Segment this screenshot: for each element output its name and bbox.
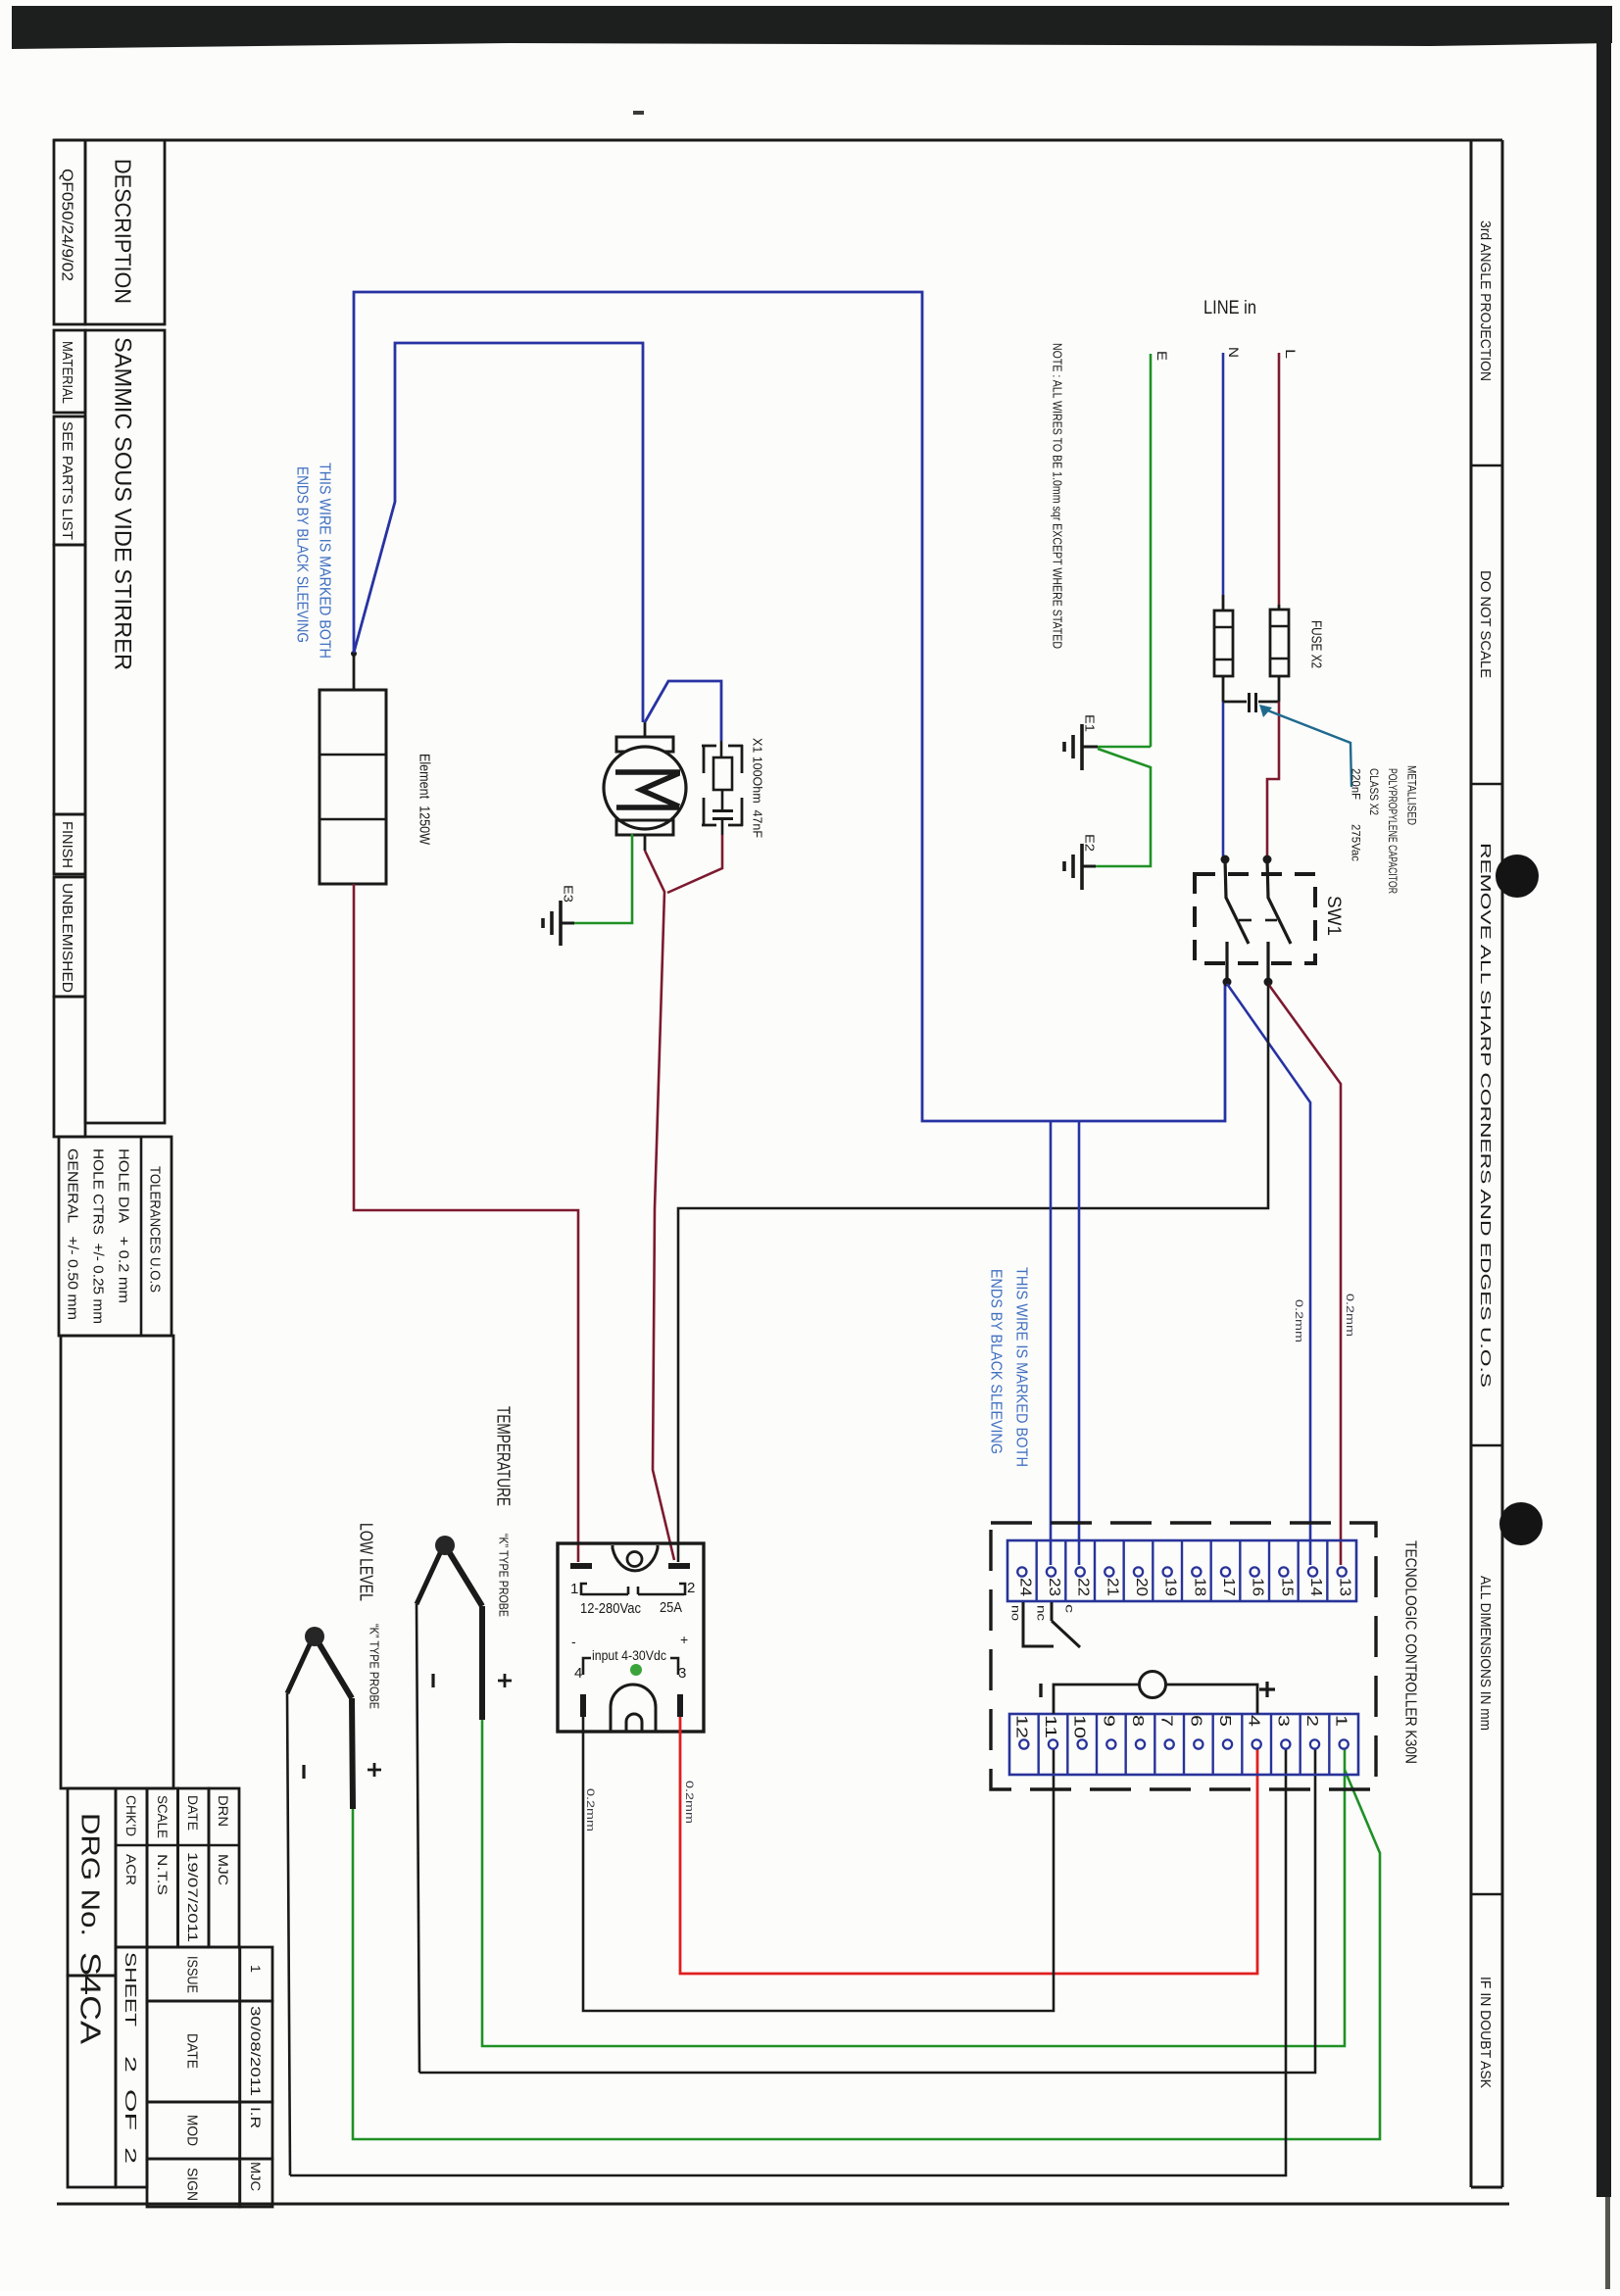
ground E2 — [1083, 865, 1096, 868]
terminal 21 — [1105, 1567, 1113, 1576]
svg-text:12-280Vac: 12-280Vac — [580, 1600, 641, 1617]
svg-text:0.2mm: 0.2mm — [1344, 1294, 1355, 1337]
ground E1 — [1083, 746, 1098, 749]
svg-text:11: 11 — [1042, 1715, 1058, 1738]
svg-text:no: no — [1009, 1605, 1023, 1621]
SSR pad 1 — [570, 1563, 592, 1569]
wire black SSR4 to terminal 11 — [583, 1717, 1054, 2011]
svg-text:THIS WIRE IS MARKED BOTH: THIS WIRE IS MARKED BOTH — [316, 463, 332, 659]
wire E line (green) — [1150, 354, 1153, 747]
SSR pad 2 — [668, 1563, 690, 1569]
SSR output contact symbol — [581, 1584, 587, 1595]
svg-text:2 OF 2: 2 OF 2 — [122, 2056, 138, 2164]
motor M1 — [616, 737, 673, 752]
node SW1 N bottom — [1223, 978, 1232, 987]
scanner black bar right — [1596, 6, 1611, 2197]
terminal 3 — [1281, 1739, 1290, 1748]
wire green motor to E3 ground — [574, 834, 632, 923]
wire red SSR3 to terminal 4 — [680, 1717, 1257, 1974]
resistor X1 100Ohm — [713, 757, 732, 790]
wire motor bottom stub — [644, 835, 647, 851]
wire green temp probe to terminal 1 — [482, 1720, 1345, 2046]
right margin cells — [1471, 464, 1502, 467]
fuse F1 (N) — [1222, 595, 1225, 611]
switch pole 1 — [1225, 859, 1249, 982]
svg-text:ALL DIMENSIONS IN mm: ALL DIMENSIONS IN mm — [1477, 1576, 1493, 1731]
svg-text:2: 2 — [1303, 1715, 1320, 1727]
svg-text:THIS WIRE IS MARKED BOTH: THIS WIRE IS MARKED BOTH — [1012, 1267, 1029, 1467]
svg-text:5: 5 — [1216, 1715, 1233, 1727]
svg-text:6: 6 — [1187, 1715, 1203, 1727]
low level probe — [305, 1627, 324, 1646]
relay contact symbol — [1023, 1602, 1080, 1647]
wire L line (maroon) — [1278, 353, 1281, 605]
svg-text:7: 7 — [1158, 1715, 1175, 1727]
svg-text:nc: nc — [1035, 1605, 1049, 1621]
terminal 4 — [1252, 1739, 1261, 1748]
wire blue taps to terminals 22 23 — [1050, 1121, 1053, 1565]
svg-text:25A: 25A — [660, 1599, 682, 1616]
terminal 1 — [1340, 1739, 1349, 1748]
svg-text:input 4-30Vdc: input 4-30Vdc — [592, 1648, 666, 1663]
leader to capacitor — [1265, 709, 1351, 787]
svg-text:UNBLEMISHED: UNBLEMISHED — [59, 883, 74, 993]
terminal 16 — [1251, 1567, 1259, 1576]
svg-text:DRG No.: DRG No. — [76, 1813, 106, 1936]
svg-text:0.2mm: 0.2mm — [683, 1781, 695, 1824]
wire X1 top stub — [720, 741, 723, 757]
wire black temp probe to terminal 2 — [419, 1748, 1315, 2073]
svg-text:Element 1250W: Element 1250W — [417, 754, 433, 846]
svg-text:E1: E1 — [1082, 714, 1097, 732]
svg-text:E: E — [1154, 351, 1169, 361]
terminal 24 — [1017, 1567, 1026, 1576]
wire maroon motor bottom to SSR pin2 — [645, 851, 674, 1560]
svg-text:13: 13 — [1337, 1578, 1353, 1596]
label controller plus — [1259, 1682, 1275, 1697]
wire black low level to terminal 3 — [290, 1748, 1286, 2175]
svg-text:FUSE X2: FUSE X2 — [1308, 620, 1325, 668]
svg-text:DRN: DRN — [216, 1795, 231, 1827]
svg-text:14: 14 — [1307, 1578, 1324, 1596]
label temp minus — [431, 1674, 434, 1687]
svg-text:MJC: MJC — [248, 2162, 264, 2191]
sheet border frame — [54, 139, 1502, 142]
svg-text:“K” TYPE PROBE: “K” TYPE PROBE — [368, 1624, 381, 1709]
wire blue loop element-SW1 (marked both ends) — [354, 292, 1225, 1121]
node element top junction — [351, 651, 357, 657]
wire maroon SW1 to terminal 13 — [1268, 984, 1341, 1565]
svg-text:DO NOT SCALE: DO NOT SCALE — [1477, 570, 1493, 678]
svg-text:20: 20 — [1133, 1578, 1150, 1596]
terminal 8 — [1136, 1739, 1145, 1748]
SSR pad 3 — [677, 1694, 683, 1717]
svg-text:c: c — [1063, 1604, 1077, 1613]
terminal 22 — [1076, 1567, 1085, 1576]
svg-text:X1 100Ohm 47nF: X1 100Ohm 47nF — [751, 738, 764, 838]
SSR pad 4 — [580, 1694, 586, 1717]
svg-text:FINISH: FINISH — [59, 821, 74, 868]
controller ssr-drive circle — [1054, 1685, 1139, 1714]
svg-text:DESCRIPTION: DESCRIPTION — [111, 159, 136, 304]
capacitor C1 220nF leads — [1223, 701, 1247, 704]
terminal 2 — [1310, 1739, 1319, 1748]
fuse F2 (L) — [1278, 605, 1281, 610]
svg-text:N.T.S: N.T.S — [155, 1854, 171, 1895]
svg-text:HOLE CTRS +/- 0.25 mm: HOLE CTRS +/- 0.25 mm — [90, 1148, 107, 1324]
svg-text:SCALE: SCALE — [155, 1795, 171, 1838]
svg-text:30/08/2011: 30/08/2011 — [248, 2006, 264, 2096]
svg-text:16: 16 — [1250, 1578, 1266, 1596]
svg-text:1: 1 — [1333, 1715, 1350, 1727]
svg-text:21: 21 — [1104, 1578, 1120, 1596]
svg-text:I.R: I.R — [248, 2107, 264, 2128]
svg-text:22: 22 — [1075, 1578, 1092, 1596]
terminal 10 — [1078, 1739, 1087, 1748]
controller K30N dashed outline — [991, 1523, 1376, 1789]
wire element bottom (maroon) to SSR pin1 — [354, 884, 578, 1562]
punch hole bottom — [1499, 1502, 1543, 1545]
svg-text:NOTE : ALL WIRES TO BE 1.0mm s: NOTE : ALL WIRES TO BE 1.0mm sqr EXCEPT … — [1050, 343, 1064, 649]
solid state relay U1 box — [558, 1543, 704, 1732]
svg-text:17: 17 — [1220, 1578, 1237, 1596]
svg-text:MJC: MJC — [216, 1854, 231, 1885]
svg-text:-: - — [571, 1634, 576, 1649]
svg-text:SW1: SW1 — [1323, 896, 1344, 936]
wire green E to grounds — [1098, 746, 1151, 749]
svg-text:4: 4 — [574, 1665, 582, 1682]
wire motor top stub — [644, 722, 647, 737]
wire blue SW1 to terminal 14 — [1227, 984, 1310, 1565]
node SW1 N top — [1221, 855, 1230, 864]
svg-text:SIGN: SIGN — [184, 2168, 201, 2201]
svg-text:LINE in: LINE in — [1203, 298, 1256, 318]
svg-text:9: 9 — [1100, 1715, 1116, 1727]
switch SW1 dashed box — [1195, 874, 1315, 963]
terminal 14 — [1308, 1567, 1317, 1576]
SSR bottom notch — [611, 1685, 656, 1731]
svg-text:CLASS X2: CLASS X2 — [1367, 768, 1381, 815]
svg-text:DATE: DATE — [185, 1795, 201, 1831]
tolerances box — [59, 1137, 172, 1336]
terminal 18 — [1192, 1567, 1201, 1576]
svg-text:1: 1 — [248, 1965, 264, 1973]
svg-text:3rd ANGLE PROJECTION: 3rd ANGLE PROJECTION — [1477, 220, 1493, 381]
terminal 13 — [1338, 1567, 1347, 1576]
label low plus — [368, 1763, 381, 1777]
svg-text:ACR: ACR — [123, 1854, 139, 1885]
svg-text:QF050/24/9/02: QF050/24/9/02 — [58, 169, 74, 281]
svg-text:DATE: DATE — [184, 2033, 201, 2069]
wire resistor to capacitor — [721, 790, 724, 809]
SSR input brackets — [583, 1658, 591, 1675]
scanner black bar top — [12, 6, 1612, 49]
svg-text:3: 3 — [1274, 1715, 1291, 1727]
svg-text:12: 12 — [1012, 1715, 1029, 1738]
wire green low level to terminal 1 — [353, 1770, 1380, 2139]
svg-text:E3: E3 — [561, 885, 575, 903]
svg-text:L: L — [1283, 349, 1298, 360]
svg-text:0.2mm: 0.2mm — [1293, 1299, 1304, 1343]
svg-text:CHK'D: CHK'D — [123, 1795, 139, 1836]
wire maroon X1 to motor net — [667, 835, 722, 893]
svg-text:24: 24 — [1016, 1578, 1033, 1596]
svg-text:+: + — [680, 1632, 688, 1647]
drawing info table — [68, 1788, 116, 1976]
svg-text:REMOVE ALL SHARP CORNERS AND E: REMOVE ALL SHARP CORNERS AND EDGES U.O.S — [1477, 843, 1493, 1388]
wire N line (blue) — [1222, 353, 1225, 595]
svg-text:19: 19 — [1162, 1578, 1179, 1596]
label low minus — [302, 1765, 305, 1779]
terminal row 1-12 — [1009, 1714, 1358, 1775]
left band lower empty box — [61, 1336, 173, 1788]
capacitor C1 220nF plates — [1248, 693, 1251, 712]
terminal 9 — [1106, 1739, 1115, 1748]
terminal 15 — [1279, 1567, 1288, 1576]
wire black SW1 to SSR pin2 — [678, 984, 1268, 1562]
svg-text:N: N — [1226, 347, 1241, 358]
terminal row 13-24 — [1007, 1540, 1356, 1601]
terminal 23 — [1047, 1567, 1055, 1576]
svg-text:HOLE DIA + 0.2 mm: HOLE DIA + 0.2 mm — [116, 1148, 132, 1303]
svg-text:“K” TYPE PROBE: “K” TYPE PROBE — [497, 1534, 511, 1617]
svg-text:23: 23 — [1046, 1578, 1062, 1596]
svg-text:0.2mm: 0.2mm — [584, 1788, 596, 1832]
svg-text:19/07/2011: 19/07/2011 — [185, 1852, 201, 1942]
svg-text:SAMMIC SOUS VIDE STIRRER: SAMMIC SOUS VIDE STIRRER — [109, 337, 135, 670]
terminal 17 — [1221, 1567, 1230, 1576]
label controller minus — [1039, 1684, 1042, 1697]
svg-text:MOD: MOD — [184, 2115, 201, 2146]
svg-text:E2: E2 — [1082, 834, 1097, 852]
wire L below fuse (maroon) — [1267, 702, 1279, 856]
terminal 6 — [1194, 1739, 1203, 1748]
punch hole top — [1496, 855, 1539, 898]
svg-text:TECNOLOGIC CONTROLLER K30N: TECNOLOGIC CONTROLLER K30N — [1401, 1540, 1418, 1764]
svg-text:GENERAL +/- 0.50 mm: GENERAL +/- 0.50 mm — [65, 1148, 81, 1320]
svg-text:1: 1 — [570, 1581, 578, 1597]
terminal 12 — [1019, 1739, 1028, 1748]
svg-text:SEE PARTS LIST: SEE PARTS LIST — [59, 421, 74, 540]
svg-text:TEMPERATURE: TEMPERATURE — [494, 1406, 514, 1506]
svg-text:ENDS BY BLACK SLEEVING: ENDS BY BLACK SLEEVING — [987, 1269, 1004, 1454]
svg-text:4: 4 — [1246, 1715, 1262, 1728]
wire X1 bottom stub — [721, 818, 724, 835]
capacitor 47nF plates — [712, 809, 733, 812]
svg-text:POLYPROPYLENE CAPACITOR: POLYPROPYLENE CAPACITOR — [1386, 768, 1399, 894]
title block left band — [54, 140, 85, 324]
SSR mounting tab — [613, 1545, 658, 1571]
wire blue motor to X1 snubber — [645, 681, 721, 741]
motor letter M (rotated) — [615, 772, 680, 807]
switch pole 2 — [1267, 859, 1291, 982]
svg-text:8: 8 — [1129, 1715, 1146, 1727]
terminal 19 — [1163, 1567, 1172, 1576]
svg-text:275Vac: 275Vac — [1350, 824, 1363, 861]
svg-text:SHEET: SHEET — [122, 1952, 138, 2027]
svg-text:18: 18 — [1191, 1578, 1207, 1596]
svg-text:ISSUE: ISSUE — [184, 1956, 201, 1993]
wire element top stub (black) — [353, 653, 356, 690]
terminal 11 — [1049, 1739, 1057, 1748]
ground E3 — [561, 922, 574, 925]
svg-text:LOW LEVEL: LOW LEVEL — [357, 1523, 376, 1601]
label temp plus — [498, 1674, 512, 1687]
svg-text:10: 10 — [1071, 1715, 1088, 1739]
svg-text:METALLISED: METALLISED — [1405, 765, 1419, 825]
node SW1 L bottom — [1264, 978, 1273, 987]
SSR led — [630, 1664, 642, 1676]
svg-text:2: 2 — [687, 1580, 695, 1596]
svg-text:MATERIAL: MATERIAL — [59, 341, 74, 404]
element E 1250W heater — [319, 690, 386, 884]
svg-text:S4CA: S4CA — [74, 1952, 106, 2045]
X1 enclosure brackets — [702, 745, 716, 773]
svg-text:IF IN DOUBT ASK: IF IN DOUBT ASK — [1477, 1977, 1493, 2088]
node SW1 L top — [1263, 855, 1272, 864]
svg-text:15: 15 — [1278, 1578, 1295, 1596]
svg-text:TOLERANCES U.O.S: TOLERANCES U.O.S — [147, 1166, 164, 1293]
terminal 20 — [1134, 1567, 1143, 1576]
wire blue branch to motor top — [354, 343, 643, 722]
terminal 5 — [1223, 1739, 1232, 1748]
svg-text:220nF: 220nF — [1350, 768, 1363, 800]
issue table — [147, 1947, 240, 2001]
svg-text:3: 3 — [678, 1665, 686, 1682]
svg-text:ENDS BY BLACK SLEEVING: ENDS BY BLACK SLEEVING — [293, 466, 310, 643]
wire N below fuse (blue) — [1222, 702, 1225, 856]
terminal 7 — [1165, 1739, 1174, 1748]
temperature probe — [435, 1536, 455, 1555]
